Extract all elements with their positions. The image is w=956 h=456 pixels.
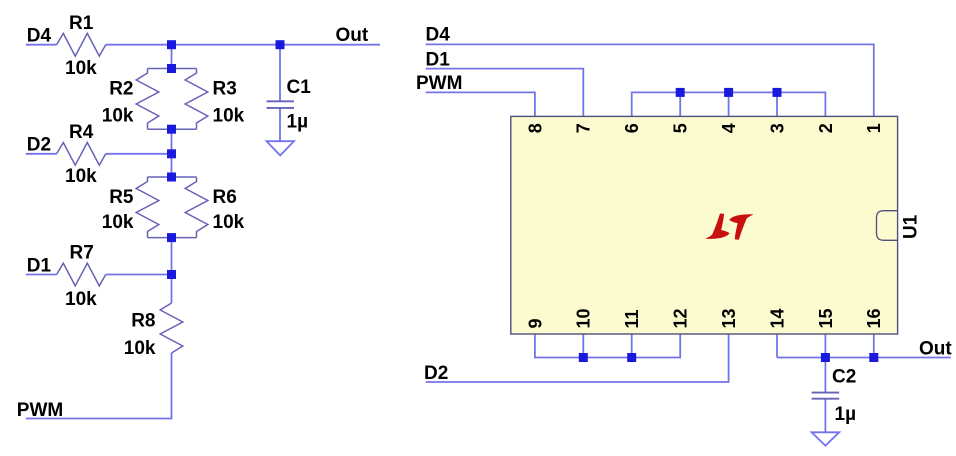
svg-text:D4: D4 bbox=[27, 25, 52, 46]
node: bottom bus pin 10 bbox=[579, 353, 588, 362]
wire: top bus pins 2-6 bbox=[632, 92, 826, 116]
node: bottom bus pin 15 bbox=[821, 353, 830, 362]
wire: pin 10 stub bbox=[582, 334, 584, 358]
svg-text:10k: 10k bbox=[102, 105, 134, 126]
svg-text:10k: 10k bbox=[65, 58, 97, 79]
wire: pin 15 stub bbox=[824, 334, 826, 358]
svg-text:4: 4 bbox=[719, 123, 739, 133]
wire: pin 3 stub bbox=[776, 92, 778, 116]
wire: D4 lead to R1 bbox=[26, 44, 57, 46]
node: R4 junction bbox=[167, 149, 176, 158]
wire: pin 13 to D2 bbox=[426, 334, 729, 382]
node: pair2 bottom bbox=[167, 233, 176, 242]
svg-text:1µ: 1µ bbox=[287, 112, 309, 133]
svg-text:11: 11 bbox=[622, 309, 642, 328]
resistor R7 bbox=[57, 263, 106, 286]
svg-text:10k: 10k bbox=[65, 289, 97, 310]
svg-text:R4: R4 bbox=[69, 122, 94, 143]
wire: pair2 bottom bar bbox=[148, 237, 197, 239]
svg-text:Out: Out bbox=[336, 25, 369, 46]
wire: D4 to pin 1 bbox=[426, 44, 874, 116]
node: top bus pin 5 bbox=[676, 88, 685, 97]
node junctions (left) bbox=[167, 40, 285, 279]
resistor R8 bbox=[160, 303, 183, 353]
svg-text:16: 16 bbox=[864, 308, 884, 328]
svg-text:1: 1 bbox=[864, 123, 884, 133]
svg-text:8: 8 bbox=[525, 123, 545, 133]
svg-text:14: 14 bbox=[767, 308, 787, 328]
node junctions (right) bbox=[579, 88, 879, 362]
node: Out/C1 junction bbox=[276, 40, 285, 49]
svg-text:D1: D1 bbox=[27, 255, 52, 276]
wire: pair2 top bar bbox=[148, 176, 197, 178]
wire: pin 4 stub bbox=[728, 92, 730, 116]
svg-text:7: 7 bbox=[574, 123, 594, 133]
wire: pair2 bottom to R7 node bbox=[171, 238, 173, 275]
wire: Out node down to C1 bbox=[279, 45, 281, 102]
wire: pin 11 stub bbox=[631, 334, 633, 358]
svg-text:15: 15 bbox=[816, 308, 836, 328]
wire: C2 top bbox=[824, 358, 826, 393]
capacitor C1 bbox=[267, 101, 295, 108]
resistor R5 bbox=[136, 177, 159, 238]
wire: pin 14 stub bbox=[776, 334, 778, 358]
svg-text:D4: D4 bbox=[426, 25, 451, 46]
ground (C1) bbox=[267, 141, 295, 155]
svg-text:5: 5 bbox=[671, 123, 691, 133]
node: R7 junction bbox=[167, 270, 176, 279]
svg-text:D2: D2 bbox=[424, 363, 448, 384]
svg-text:6: 6 bbox=[622, 123, 642, 133]
svg-text:D2: D2 bbox=[27, 135, 51, 156]
resistor R3 bbox=[185, 69, 208, 130]
wire: C1 to ground bbox=[279, 108, 281, 141]
IC U1 tab bbox=[877, 211, 898, 241]
wire: D1 to pin 7 bbox=[426, 69, 584, 117]
wire: node to R8 bbox=[171, 275, 173, 304]
resistor R6 bbox=[185, 177, 208, 238]
IC U1 body bbox=[511, 116, 898, 334]
svg-text:10: 10 bbox=[574, 308, 594, 328]
wire: R8 down and left to PWM bbox=[26, 353, 172, 419]
svg-text:R1: R1 bbox=[69, 13, 94, 34]
svg-text:3: 3 bbox=[767, 123, 787, 133]
svg-text:2: 2 bbox=[816, 123, 836, 133]
svg-text:Out: Out bbox=[919, 338, 952, 359]
wire: D1 lead to R7 bbox=[26, 274, 57, 276]
resistor R4 bbox=[57, 143, 106, 166]
svg-text:9: 9 bbox=[525, 318, 545, 328]
wire: bottom bus pins 9-12 bbox=[535, 334, 680, 358]
svg-text:10k: 10k bbox=[65, 166, 97, 187]
node: pair1 bottom bbox=[167, 125, 176, 134]
svg-text:C2: C2 bbox=[832, 367, 856, 388]
node: pair1 top bbox=[167, 64, 176, 73]
ground (C2) bbox=[812, 432, 840, 445]
wire: pin 5 stub bbox=[679, 92, 681, 116]
LT logo bbox=[706, 214, 752, 240]
svg-text:10k: 10k bbox=[213, 105, 245, 126]
svg-text:PWM: PWM bbox=[17, 400, 63, 421]
wire: bottom bus pins 14-16 to Out bbox=[777, 357, 951, 359]
wire: pair1 bottom bar bbox=[148, 128, 197, 130]
svg-text:PWM: PWM bbox=[416, 73, 462, 94]
svg-text:13: 13 bbox=[719, 308, 739, 328]
svg-text:R8: R8 bbox=[131, 311, 155, 332]
capacitor C2 bbox=[812, 393, 840, 399]
wire: pair1 top bar bbox=[148, 68, 197, 70]
resistor R1 bbox=[57, 33, 106, 56]
node: pair2 top bbox=[167, 173, 176, 182]
wire: R4 to node bbox=[106, 153, 172, 155]
svg-text:10k: 10k bbox=[102, 212, 134, 233]
svg-text:U1: U1 bbox=[901, 214, 922, 239]
wire: pin 16 stub bbox=[873, 334, 875, 358]
wire: top node down to pair1 bbox=[171, 45, 173, 69]
svg-text:R7: R7 bbox=[70, 242, 94, 263]
svg-text:R2: R2 bbox=[109, 78, 133, 99]
svg-text:R6: R6 bbox=[213, 187, 237, 208]
node: top bus junction bbox=[167, 40, 176, 49]
node: bottom bus pin 11 bbox=[627, 353, 636, 362]
node: bottom bus pin 16 bbox=[869, 353, 878, 362]
svg-text:C1: C1 bbox=[287, 77, 312, 98]
svg-text:10k: 10k bbox=[124, 338, 156, 359]
wire: C2 to ground bbox=[824, 399, 826, 433]
svg-text:R3: R3 bbox=[213, 78, 237, 99]
node: top bus pin 3 bbox=[773, 88, 782, 97]
wire: D2 lead to R4 bbox=[26, 153, 57, 155]
svg-text:12: 12 bbox=[671, 308, 691, 328]
resistor R2 bbox=[136, 69, 159, 130]
svg-text:10k: 10k bbox=[213, 212, 245, 233]
wire: pair1 bottom to R4 node to pair2 bbox=[171, 129, 173, 177]
wire: R7 to node bbox=[106, 274, 172, 276]
node: top bus pin 4 bbox=[724, 88, 733, 97]
svg-text:R5: R5 bbox=[109, 187, 134, 208]
wire: R1 to Out bbox=[106, 44, 380, 46]
svg-text:D1: D1 bbox=[426, 49, 451, 70]
wire: PWM to pin 8 bbox=[426, 92, 535, 116]
svg-text:1µ: 1µ bbox=[835, 404, 857, 425]
